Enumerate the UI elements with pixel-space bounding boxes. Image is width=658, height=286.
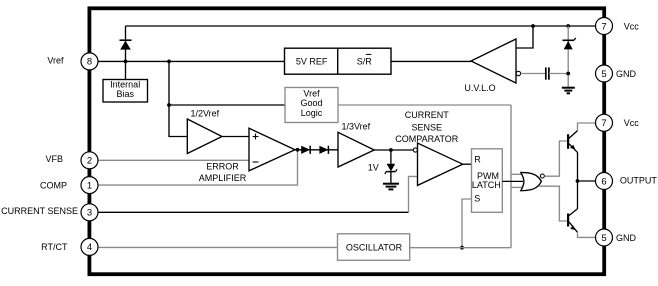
node: junction dot Vref tap / Vref good logic	[167, 103, 171, 107]
svg-text:1/3Vref: 1/3Vref	[342, 122, 371, 132]
wire: Q2 emitter to pin5	[578, 232, 597, 237]
svg-text:1V: 1V	[368, 162, 379, 172]
wire: oscillator output to gray net	[410, 247, 511, 249]
wire: zener column vertical	[567, 26, 569, 87]
node: junction dot pin8 bus / Vref tap	[167, 60, 171, 64]
wire: zener to ground	[390, 172, 392, 184]
wire: Vref pin8 horizontal bus to 5V REF box	[98, 60, 285, 62]
wire: gray net stubs into NOR gate	[511, 173, 523, 175]
diode D3	[319, 146, 328, 154]
wire: output node to pin6	[578, 180, 597, 182]
svg-text:Bias: Bias	[116, 89, 134, 99]
svg-text:CURRENT SENSE: CURRENT SENSE	[1, 206, 78, 216]
svg-text:7: 7	[601, 118, 606, 129]
wire: latch output to NOR gate	[502, 180, 523, 182]
svg-text:U.V.L.O: U.V.L.O	[464, 83, 495, 93]
node: junction dot output node	[576, 179, 580, 183]
wire: COMP pin1 feedback to error amp output	[98, 150, 298, 185]
pin 5 circle (top GND)	[596, 65, 613, 82]
svg-text:Good: Good	[300, 98, 322, 108]
svg-text:COMPARATOR: COMPARATOR	[395, 134, 459, 144]
svg-text:Vref: Vref	[47, 56, 64, 66]
svg-text:GND: GND	[616, 233, 637, 243]
ground symbol (UVLO filter)	[562, 87, 575, 89]
pin 5 circle (output GND)	[596, 229, 613, 246]
svg-text:1/2Vref: 1/2Vref	[191, 108, 220, 118]
wire: capacitor to zener column	[549, 73, 568, 75]
svg-text:5V REF: 5V REF	[296, 56, 328, 66]
svg-text:R: R	[474, 155, 481, 165]
wire: 1/2Vref output to error amp + input	[222, 136, 249, 138]
svg-text:Logic: Logic	[301, 108, 323, 118]
op-amp U3: error amplifier	[249, 128, 295, 171]
transistor Q1 (upper NPN)	[567, 134, 569, 149]
node: junction dot Vcc rail / zener column	[566, 24, 570, 28]
ground symbol (1V clamp)	[383, 183, 399, 185]
wire: VFB pin2 to error amp - input	[98, 159, 249, 161]
wire: Q1 collector to pin7	[578, 123, 597, 131]
pin 2 circle	[81, 152, 98, 169]
node: junction dot zener clamp tap	[389, 148, 393, 152]
svg-text:GND: GND	[616, 69, 637, 79]
svg-text:5: 5	[601, 69, 606, 80]
zener diode Z2 1V clamp	[390, 150, 392, 164]
svg-text:AMPLIFIER: AMPLIFIER	[199, 173, 247, 183]
wire: latch S input branch	[462, 199, 472, 248]
svg-text:2: 2	[87, 156, 92, 167]
svg-text:6: 6	[601, 176, 606, 187]
UVLO output bubble	[516, 71, 520, 75]
error amp - input marker	[253, 161, 259, 163]
node: junction dot error amp output	[296, 148, 300, 152]
wire: tap to Vref Good Logic box	[169, 104, 285, 106]
wire: comparator output to latch R input	[463, 163, 472, 165]
wire: RT/CT pin4 to oscillator	[98, 246, 338, 248]
wire: CURRENT SENSE pin3 to comparator	[98, 211, 409, 213]
wire: 1/3Vref output to comparator bubble	[374, 149, 413, 151]
svg-text:8: 8	[87, 57, 92, 68]
NOR output bubble	[540, 174, 544, 178]
pin 8 circle	[81, 53, 98, 70]
pin 7 circle (top)	[596, 18, 613, 35]
svg-text:Vref: Vref	[303, 89, 320, 99]
node: junction dot Vcc rail / UVLO stub	[531, 24, 535, 28]
zener diode Z1 (cathode bar top)	[563, 39, 575, 41]
capacitor C1	[545, 67, 547, 79]
wire: UVLO bubble to capacitor	[521, 73, 545, 75]
wire: UVLO supply stub to Vcc rail	[516, 26, 533, 48]
svg-text:LATCH: LATCH	[472, 180, 501, 190]
wire: Vref good logic output to gate column	[338, 104, 511, 106]
svg-text:RT/CT: RT/CT	[41, 242, 68, 252]
gate U6: output NOR gate	[521, 172, 542, 190]
Internal Bias box	[103, 80, 148, 103]
svg-text:CURRENT: CURRENT	[405, 110, 450, 120]
wire: S/R box to UVLO apex	[391, 60, 471, 62]
svg-text:Vcc: Vcc	[624, 118, 640, 128]
node: junction dot pin8 bus / diode branch	[124, 60, 128, 64]
pin 6 circle	[596, 173, 613, 190]
Vref Good Logic box	[285, 88, 338, 123]
svg-text:OSCILLATOR: OSCILLATOR	[346, 242, 403, 252]
svg-text:COMP: COMP	[40, 180, 67, 190]
oscillator box	[338, 234, 410, 260]
svg-text:S: S	[474, 194, 480, 204]
PWM latch box	[472, 149, 503, 213]
transistor Q2 (lower NPN)	[567, 214, 569, 227]
svg-text:5: 5	[601, 233, 606, 244]
IC outer boundary box	[89, 8, 604, 274]
op-amp U1: UVLO comparator (points left)	[471, 39, 516, 83]
svg-text:Vcc: Vcc	[624, 21, 640, 31]
diode D2	[301, 146, 310, 154]
svg-text:VFB: VFB	[45, 154, 63, 164]
wire: Q1 emitter to output node	[577, 152, 579, 181]
wire: error amp output through diodes to 1/3Vref amp	[295, 149, 338, 151]
wire: NOR lower output to lower transistor base	[539, 186, 567, 221]
svg-text:S/R: S/R	[357, 56, 373, 66]
svg-text:4: 4	[87, 242, 92, 253]
pin 4 circle	[81, 238, 98, 255]
wire: NOR bubble to upper transistor base	[544, 141, 567, 176]
5V REF / S-R box	[285, 48, 392, 74]
error amp + input marker	[253, 136, 259, 138]
comparator input bubble	[413, 148, 417, 152]
pin 1 circle	[81, 177, 98, 194]
svg-text:3: 3	[87, 208, 92, 219]
pin 7 circle (output stage Vcc)	[596, 114, 613, 131]
diode D1 (anode below, cathode bar at top)	[120, 39, 132, 41]
svg-text:OUTPUT: OUTPUT	[620, 176, 658, 186]
node: junction dot capacitor / zener column	[566, 72, 570, 76]
pin 3 circle	[81, 204, 98, 221]
wire: gray vertical net (vref good / oscillator)	[510, 105, 512, 248]
wire: top Vcc rail from diode to pin 7	[126, 25, 597, 27]
node: junction dot oscillator / S branch	[460, 246, 464, 250]
svg-text:SENSE: SENSE	[412, 122, 443, 132]
svg-text:7: 7	[601, 21, 606, 32]
overline on R of S/R	[366, 53, 372, 55]
svg-text:1: 1	[87, 180, 92, 191]
op-amp U5: current sense comparator	[418, 143, 463, 185]
svg-text:ERROR: ERROR	[206, 161, 239, 171]
wire: Vref tap vertical down to 1/2Vref amp	[169, 61, 187, 136]
wire: internal-bias diode branch vertical	[125, 26, 127, 80]
wire: output node down to Q2 collector	[577, 181, 579, 209]
